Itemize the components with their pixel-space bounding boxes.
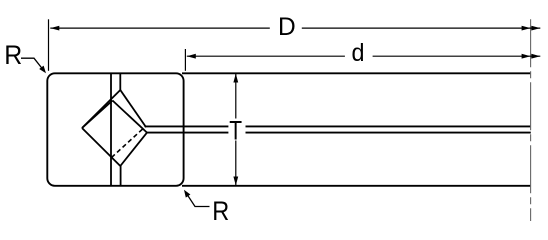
groove lower line right of T label [246,132,531,134]
top surface line to axis [182,72,531,74]
raceway top-left edge [82,90,120,128]
arrowhead d right outer [531,54,540,59]
ring split line right lower [120,166,122,186]
arrowhead D right at axis [522,26,531,31]
bottom surface line to axis [182,185,531,187]
axis centerline [530,19,532,221]
arrowhead d right at axis [522,54,531,59]
leader R top-left [21,58,45,71]
svg-text:R: R [212,196,229,226]
hidden roller edge (dashed) [112,126,146,157]
extension line d [184,49,186,71]
raceway top-right edge [120,90,145,126]
dimension line D left part [50,27,269,29]
dimension line D right part [302,27,541,29]
raceway bottom-left edge [82,128,120,166]
ring split line left [110,73,112,186]
svg-text:T: T [229,116,242,146]
svg-text:R: R [4,40,22,70]
arrowhead R top-left [39,66,46,74]
groove upper line right of T label [246,125,531,127]
dimension line T upper part [235,74,237,119]
dimension line d right part [373,55,541,57]
arrowhead D left [50,26,59,31]
svg-text:D: D [278,13,296,41]
arrowhead D right outer [531,26,540,31]
arrowhead d left [187,54,196,59]
bearing section outline (rounded rectangle) [47,73,183,186]
groove upper line left of T label [146,125,229,127]
raceway bottom-right edge [120,133,147,166]
extension line D [48,19,50,71]
groove lower line left of T label [147,132,228,134]
svg-text:d: d [352,39,365,67]
roller upper-right edge [113,101,148,133]
leader R bottom [186,193,210,207]
dimension line d left part [187,55,345,57]
arrowhead T down [233,177,238,186]
arrowhead R bottom [184,190,190,198]
arrowhead T up [233,74,238,83]
dimension line T lower part [235,141,237,186]
roller upper-left edge [82,101,113,129]
ring split line right upper [119,73,121,90]
